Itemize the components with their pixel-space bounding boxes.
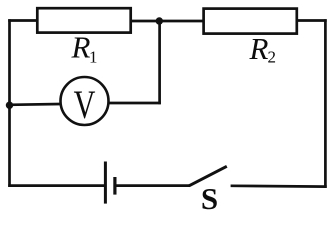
wire voltmeter branch right (voltmeter to vertical connector) xyxy=(109,102,161,105)
wire top-right (R2 to right rail) xyxy=(296,19,327,22)
svg-text:R2: R2 xyxy=(249,31,276,67)
wire bottom-right (switch contact to right rail) xyxy=(231,184,327,188)
wire top-middle (R1 to R2 through node) xyxy=(131,20,204,23)
wire top-left (left rail to R1) xyxy=(8,19,38,22)
wire bottom-left (left rail to battery) xyxy=(8,184,104,187)
svg-text:R1: R1 xyxy=(71,30,98,67)
battery long plate (positive) xyxy=(104,162,107,204)
voltmeter U (circle) xyxy=(61,77,109,125)
node A (junction of R1/R2 and voltmeter connector) xyxy=(156,17,163,24)
resistor R2 xyxy=(204,9,297,34)
wire bottom-middle (battery to switch hinge) xyxy=(116,184,190,187)
svg-text:V: V xyxy=(74,82,96,127)
resistor R1 xyxy=(37,8,130,32)
wire right rail xyxy=(324,19,327,188)
wire voltmeter branch left (node on left rail to voltmeter) xyxy=(10,103,61,107)
switch S blade xyxy=(189,166,227,186)
wire vertical connector (top node down to voltmeter branch) xyxy=(158,21,161,104)
node B (junction on left rail to voltmeter) xyxy=(6,102,13,109)
battery short plate (negative) xyxy=(113,177,116,195)
svg-text:S: S xyxy=(201,181,218,211)
wire left rail xyxy=(8,19,11,187)
